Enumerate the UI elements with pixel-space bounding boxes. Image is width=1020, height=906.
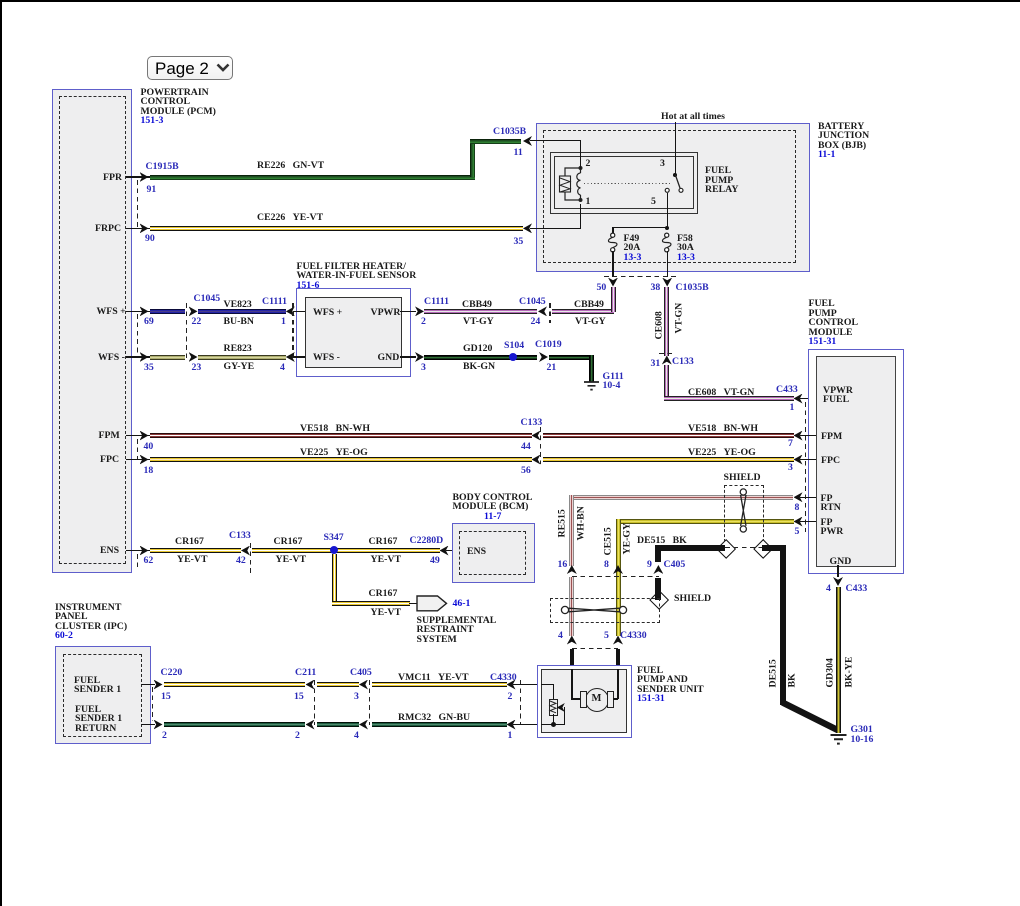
wire pin1 vertical down and to BJB edge xyxy=(580,204,581,229)
relay switch: hot feed line xyxy=(675,122,676,176)
wire GND GD120 BK-GN xyxy=(400,356,416,357)
Hot at all times xyxy=(661,112,725,122)
dashed link between diamonds xyxy=(725,547,762,549)
page left border xyxy=(0,0,2,906)
C405 row labels/arrows xyxy=(567,565,577,574)
CE608 corner and horizontal to C433 xyxy=(664,396,794,401)
fuel pump and sender unit box xyxy=(537,665,632,738)
Page 2 dropdown xyxy=(147,56,233,81)
relay pin 2 xyxy=(586,159,591,169)
BJB title xyxy=(818,122,869,160)
vertical rotated wire labels xyxy=(557,509,567,537)
wire FRPC CE226 YE-VT xyxy=(126,228,150,229)
DE515 corner + stub to C405 pin 9 xyxy=(655,545,661,562)
wire DE515 BK horizontal xyxy=(655,545,725,551)
CBB49 vertical to fuse 50 xyxy=(611,287,616,312)
relay pin5 wire down to junction xyxy=(667,193,668,228)
PCM module box xyxy=(52,89,132,573)
PCM dashed inner xyxy=(59,96,126,564)
shield drain diamond 2 xyxy=(753,539,773,559)
junction dot pin5/fuses xyxy=(665,226,669,230)
wire to fuse F49 xyxy=(612,227,666,228)
relay pin 5 xyxy=(651,197,656,207)
shield diamond at pump xyxy=(649,590,669,610)
splice S347 xyxy=(330,546,338,554)
wire FPR RE226 GN-VT xyxy=(126,176,150,177)
relay coil K1 xyxy=(556,160,606,206)
PCM connector dashed C1915B xyxy=(137,180,138,229)
S347 branch to SRS xyxy=(332,554,337,603)
fuse F58 30A xyxy=(660,232,674,253)
wire pin2 vertical to BJB edge xyxy=(580,140,581,169)
C405 dashed xyxy=(369,680,370,725)
pin 38 label xyxy=(651,283,661,293)
C220 dashed xyxy=(152,687,153,721)
wire FPM VE518 BN-WH xyxy=(126,435,150,436)
ground G301 xyxy=(829,733,848,747)
shield drain diamond 1 xyxy=(716,539,736,559)
motor M circle xyxy=(585,688,610,713)
twisted pair symbol horizontal xyxy=(560,602,630,618)
FPCM GND lead + C433 xyxy=(837,565,838,577)
C4330 dashed xyxy=(520,680,521,725)
GD304 BK-YE wire xyxy=(836,587,841,733)
PCM pin names xyxy=(103,173,122,183)
ENS row CR167 YE-VT xyxy=(126,550,150,551)
relay pin 1 xyxy=(586,197,591,207)
fuse F49 20A xyxy=(606,232,620,253)
twisted shield symbol vertical xyxy=(736,488,751,533)
CE608 VT-GN vertical from fuse 38 xyxy=(664,287,669,356)
arrow down pin 50 xyxy=(608,278,618,287)
C1045 dashed xyxy=(186,303,187,361)
SRS pentagon connector 46-1 xyxy=(416,595,448,612)
splice S104 xyxy=(509,353,517,361)
C1045 right dashed xyxy=(549,303,550,323)
FPCM box xyxy=(808,349,904,574)
sender resistor xyxy=(549,699,559,717)
C4330 row pins 4/5 xyxy=(567,636,577,645)
wire FP PWR CE515 YE-GY xyxy=(616,519,794,524)
C1035B label xyxy=(676,283,709,293)
RE515 continues below C405 xyxy=(569,577,574,636)
wire FUEL SENDER 1 VMC11 YE-VT xyxy=(141,684,155,685)
pin 50 label xyxy=(597,283,607,293)
fuel filter heater box xyxy=(296,288,411,377)
motor brackets xyxy=(580,691,587,708)
IPC box xyxy=(55,646,151,745)
C1111 dashed xyxy=(292,303,293,361)
wire WFS+ VE823 BU-BN seg1 xyxy=(126,311,150,312)
arrow down pin 38 xyxy=(662,278,672,287)
PCM title xyxy=(141,88,216,126)
page top border xyxy=(0,0,1020,2)
BCM box xyxy=(452,523,535,583)
wiper arrow xyxy=(557,703,565,712)
SHIELD dashed box (upper) xyxy=(724,485,764,542)
C211 dashed xyxy=(314,680,315,725)
C133 dashed ENS xyxy=(250,543,251,573)
BJB box xyxy=(536,123,810,272)
wire FP RTN RE515 WH-BN xyxy=(569,495,793,500)
DE515 diagonal to ground xyxy=(779,699,841,734)
C133 dashed xyxy=(540,427,541,464)
wire VPWR CBB49 VT-GY left seg xyxy=(400,311,416,312)
wire FPC VE225 YE-OG xyxy=(126,459,150,460)
FPCM connector dashed xyxy=(805,402,806,532)
wire FUEL SENDER 1 RETURN RMC32 GN-BU xyxy=(141,724,155,725)
relay pin 3 xyxy=(660,159,665,169)
fuse F58 lead down xyxy=(667,251,668,277)
motor leads inside xyxy=(571,669,573,699)
relay switch blade xyxy=(666,174,688,196)
fuse F49 lead down xyxy=(612,251,613,277)
BJB dashed inner xyxy=(543,130,796,263)
relay dotted armature line xyxy=(584,183,670,184)
C1035B dashed connector line xyxy=(604,276,676,277)
fuel pump relay outer xyxy=(550,152,699,214)
DE515 vertical down xyxy=(780,545,786,705)
wire WFS- RE823 GY-YE seg1 xyxy=(126,356,150,357)
sender wiring xyxy=(541,684,554,685)
C133 connector on CE608 xyxy=(662,356,672,365)
fuel pump relay inner xyxy=(554,156,694,209)
twisted pair dashed box (lower) xyxy=(550,598,660,623)
black leads into pump unit xyxy=(570,649,574,671)
ground G111 xyxy=(583,381,600,393)
